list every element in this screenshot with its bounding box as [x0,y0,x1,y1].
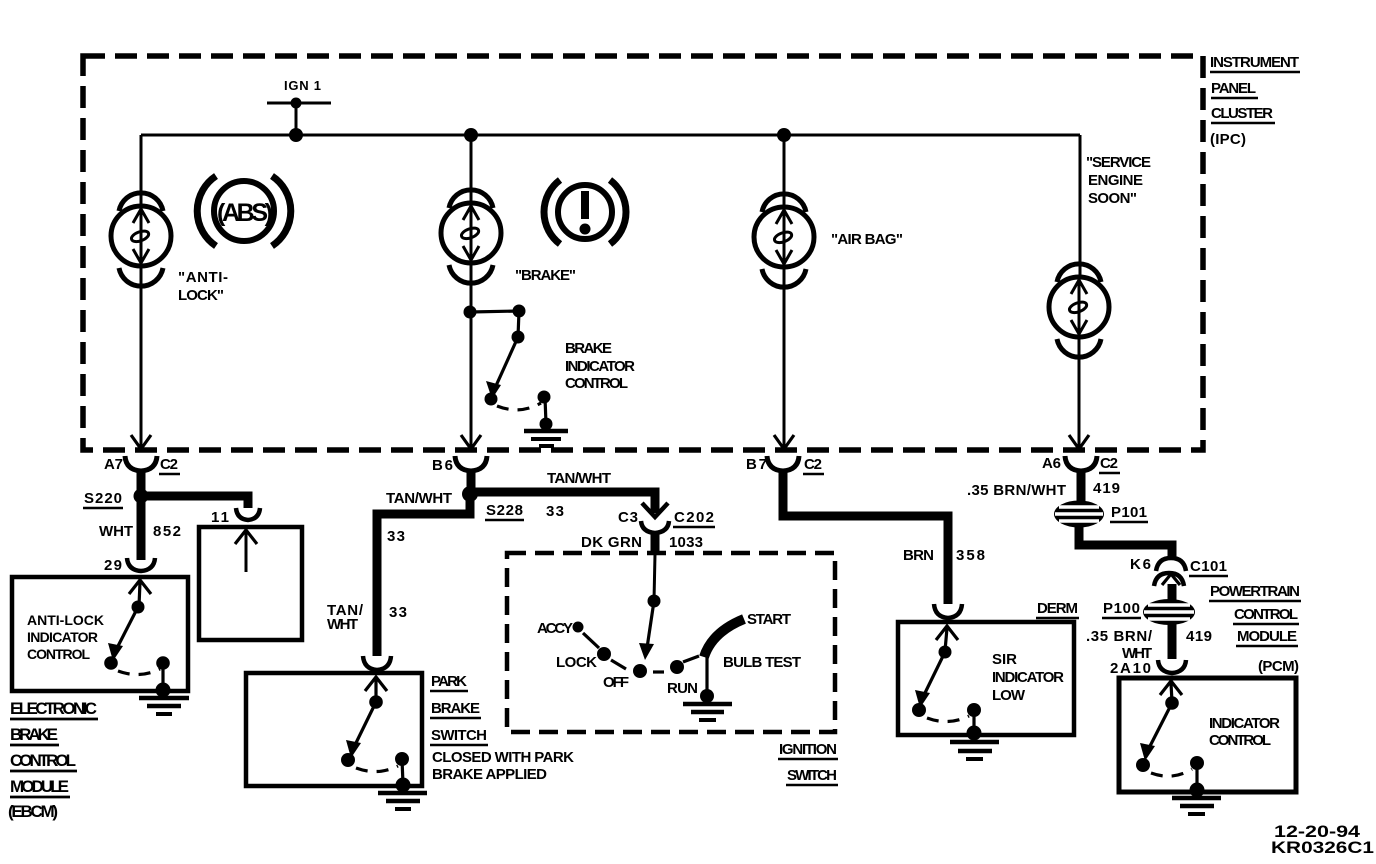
label PARK BRAKE SWITCH [430,673,574,783]
svg-text:LOCK: LOCK [556,654,597,671]
node IGN 1 [267,78,331,142]
svg-text:CONTROL: CONTROL [1234,606,1298,623]
svg-text:CONTROL: CONTROL [27,646,90,662]
svg-text:29: 29 [104,557,122,574]
park brake connector cup [363,656,391,670]
svg-text:33: 33 [389,604,407,621]
svg-text:IGNITION: IGNITION [779,741,837,758]
INDICATOR CONTROL box (PCM) [1119,678,1296,792]
svg-text:RUN: RUN [667,680,698,697]
ground (SIR) [950,742,999,759]
svg-text:INDICATOR: INDICATOR [992,669,1064,686]
svg-text:33: 33 [387,528,405,545]
svg-text:BRAKE APPLIED: BRAKE APPLIED [432,766,547,783]
box 11 (unlabeled module) [199,527,302,640]
svg-text:358: 358 [956,547,985,564]
svg-text:A7: A7 [104,456,123,473]
svg-text:S228: S228 [486,502,523,519]
connector C2 pin B6 [432,456,487,488]
svg-text:TAN/WHT: TAN/WHT [547,470,611,487]
wire airbag lamp drop [783,135,786,207]
splice P100 [1102,599,1195,625]
svg-text:"SERVICE: "SERVICE [1086,154,1151,171]
svg-text:TAN/WHT: TAN/WHT [386,490,452,507]
splice P101 [1054,501,1148,528]
svg-text:"AIR BAG": "AIR BAG" [831,231,903,248]
svg-text:INSTRUMENT: INSTRUMENT [1210,54,1299,71]
svg-text:SWITCH: SWITCH [787,767,837,784]
svg-text:33: 33 [546,503,564,520]
wire WHT 852 thick [137,471,146,560]
svg-text:.35 BRN/: .35 BRN/ [1086,628,1153,645]
svg-text:MODULE: MODULE [10,777,69,796]
svg-text:IGN 1: IGN 1 [284,78,321,93]
lamp "ANTI-LOCK" [111,193,171,286]
svg-text:CONTROL: CONTROL [1209,732,1271,749]
wire TAN/WHT to park brake switch [377,494,470,656]
svg-text:INDICATOR: INDICATOR [1209,715,1280,732]
PARK BRAKE SWITCH box [246,673,422,786]
label ELECTRONIC BRAKE CONTROL MODULE (EBCM) [8,699,98,821]
svg-text:BULB TEST: BULB TEST [723,654,801,671]
svg-text:WHT: WHT [99,523,133,540]
lamp "SERVICE ENGINE SOON" [1049,264,1109,357]
svg-text:B6: B6 [432,457,453,474]
svg-text:(PCM): (PCM) [1258,658,1299,675]
wire lamp2 to border arrow [470,265,473,448]
svg-text:INDICATOR: INDICATOR [27,629,98,645]
wire airbag to border arrow [783,269,786,448]
splice S220 [134,489,149,504]
svg-text:C2: C2 [1100,455,1118,472]
connector C2 pin A6 [1042,455,1120,473]
wire .35 BRN/WHT 419 [1077,471,1086,502]
svg-text:DERM: DERM [1037,600,1078,617]
wire TAN/WHT 33 to C202 [470,492,655,513]
ground (park brake) [378,793,427,809]
wire K6 to P100 [1168,584,1177,602]
ignition switch internals [537,554,801,703]
svg-text:C2: C2 [160,456,178,473]
svg-text:ENGINE: ENGINE [1088,172,1143,189]
wire .35 BRN/WHT 2A10 419 [1168,624,1177,659]
label INSTRUMENT PANEL CLUSTER (IPC) [1210,54,1300,148]
wire branch to box 11 [141,496,248,508]
svg-text:C202: C202 [674,509,714,526]
ANTI-LOCK INDICATOR CONTROL box [12,577,188,691]
svg-text:.35 BRN/WHT: .35 BRN/WHT [967,482,1066,499]
connector C202 pin C3 [618,503,715,533]
wire service lamp to border arrow [1078,339,1081,448]
ground (PCM) [1172,798,1221,814]
wire DK GRN 1033 [651,531,660,554]
svg-text:SIR: SIR [992,651,1017,668]
svg-text:PANEL: PANEL [1211,80,1256,97]
svg-text:LOCK": LOCK" [178,287,224,304]
IPC dashed box (INSTRUMENT PANEL CLUSTER) [83,56,1203,450]
ground (brake indicator) [524,431,568,446]
svg-text:START: START [747,611,791,628]
svg-text:ANTI-LOCK: ANTI-LOCK [27,612,104,628]
lamp "AIR BAG" [754,194,814,287]
svg-text:(EBCM): (EBCM) [8,802,58,821]
connector C2 pin A7 [104,456,180,474]
svg-text:P100: P100 [1103,600,1140,617]
svg-text:CONTROL: CONTROL [565,375,628,392]
lamp "BRAKE" [441,190,501,283]
svg-text:MODULE: MODULE [1237,628,1297,645]
svg-text:ELECTRONIC: ELECTRONIC [10,699,97,718]
svg-text:DK GRN: DK GRN [581,534,642,551]
SIR cup connector [934,604,962,618]
svg-text:419: 419 [1186,628,1212,645]
svg-text:LOW: LOW [992,687,1026,704]
svg-text:"ANTI-: "ANTI- [178,269,228,286]
svg-text:C101: C101 [1190,558,1227,575]
svg-text:WHT: WHT [327,616,358,633]
svg-text:852: 852 [153,523,181,540]
junction dots on bus [464,128,478,142]
svg-text:(ABS): (ABS) [217,199,273,227]
svg-text:(IPC): (IPC) [1210,131,1246,148]
ground (ignition switch) [683,704,732,720]
svg-text:BRN: BRN [903,547,934,564]
svg-text:A6: A6 [1042,455,1061,472]
svg-text:CONTROL: CONTROL [10,751,76,770]
svg-text:BRAKE: BRAKE [431,700,480,717]
svg-text:POWERTRAIN: POWERTRAIN [1210,583,1300,600]
svg-text:419: 419 [1093,480,1120,497]
svg-text:SOON": SOON" [1088,190,1137,207]
SIR INDICATOR LOW box [898,622,1074,735]
connector C101 pin K6 [1130,556,1228,586]
svg-text:2A10: 2A10 [1110,660,1151,677]
svg-text:C2: C2 [804,456,822,473]
BRAKE warning icon [544,180,626,244]
wire main bus [141,134,1080,137]
ABS indicator icon [197,176,291,246]
switch inside park brake box [341,677,411,793]
wire lamp1 drop [140,135,143,206]
brake indicator switch inside IPC [464,305,553,431]
svg-text:OFF: OFF [603,674,629,691]
svg-text:ACCY: ACCY [537,620,573,637]
label POWERTRAIN CONTROL MODULE (PCM) [1209,583,1301,675]
svg-text:P101: P101 [1111,504,1147,521]
svg-text:BRAKE: BRAKE [10,725,58,744]
switch inside EBCM box [104,580,170,698]
switch inside SIR box [912,626,982,741]
svg-text:INDICATOR: INDICATOR [565,358,635,375]
splice S228 [462,486,478,502]
svg-text:S220: S220 [84,490,122,507]
wire lamp2 drop [470,135,473,203]
svg-text:1033: 1033 [669,534,703,551]
ground (EBCM) [139,698,189,714]
switch inside PCM box [1136,681,1205,798]
svg-text:B7: B7 [746,456,767,473]
svg-text:K6: K6 [1130,556,1151,573]
IGNITION SWITCH dashed box [507,553,835,732]
svg-text:SWITCH: SWITCH [431,727,487,744]
svg-text:CLUSTER: CLUSTER [1211,105,1273,122]
wire to C101 [1079,526,1172,558]
svg-text:C3: C3 [618,509,638,526]
svg-text:"BRAKE": "BRAKE" [515,267,576,284]
svg-text:BRAKE: BRAKE [565,340,612,357]
wire BRN 358 [783,471,948,604]
svg-text:CLOSED WITH PARK: CLOSED WITH PARK [432,749,574,766]
connector C2 pin B7 [746,456,824,474]
svg-text:11: 11 [211,509,229,526]
arrows into border [131,435,151,449]
wire service engine soon branch [1079,135,1082,277]
svg-text:KR0326C1: KR0326C1 [1271,838,1374,857]
PCM cup connector [1158,660,1186,673]
wire lamp1 to border arrow [140,268,143,448]
svg-text:PARK: PARK [431,673,467,690]
